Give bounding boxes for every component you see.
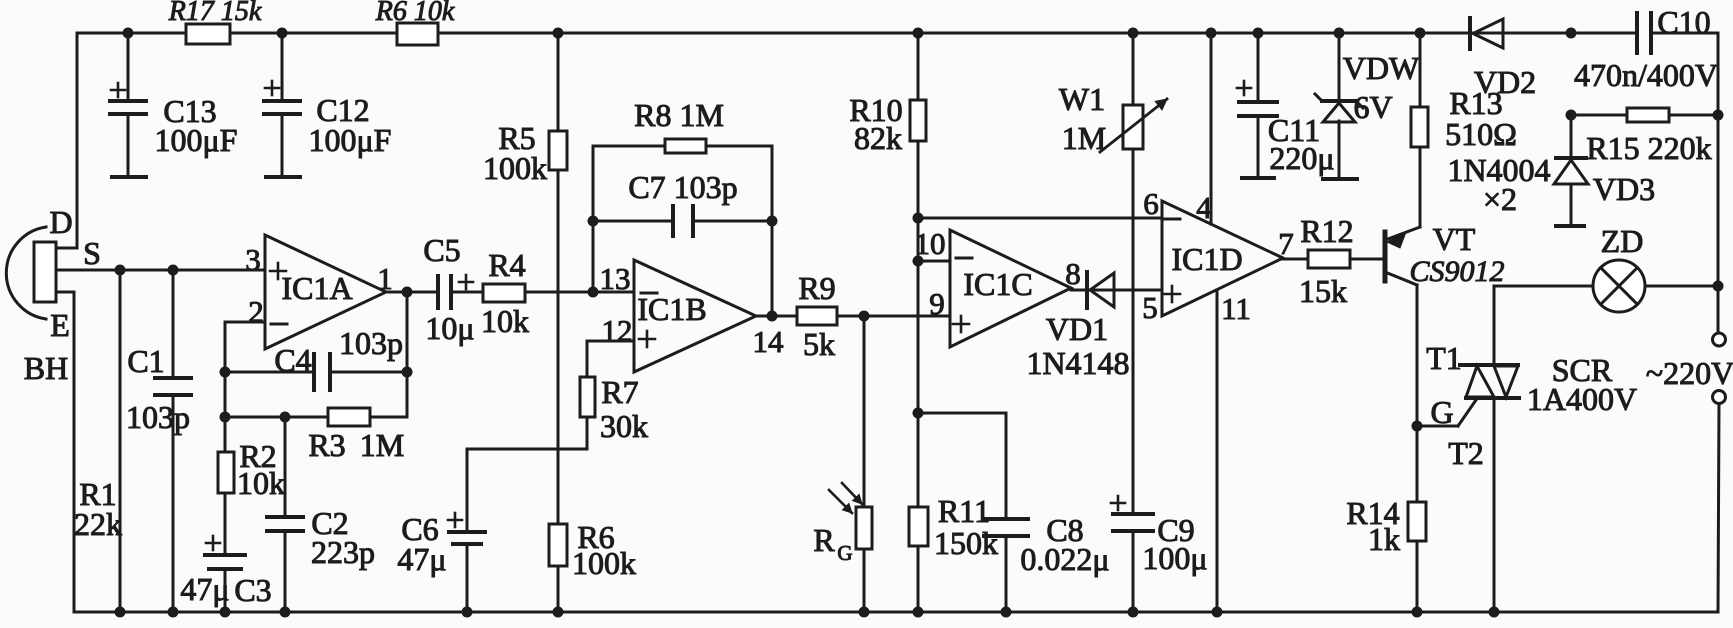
svg-text:~220V: ~220V <box>1646 355 1733 391</box>
svg-text:510Ω: 510Ω <box>1445 116 1517 152</box>
svg-text:ZD: ZD <box>1601 223 1644 259</box>
svg-text:1M: 1M <box>360 427 404 463</box>
svg-text:2: 2 <box>248 294 264 329</box>
svg-text:×2: ×2 <box>1483 181 1517 217</box>
svg-text:5: 5 <box>1142 290 1158 325</box>
svg-text:100μF: 100μF <box>155 122 238 158</box>
svg-text:10μ: 10μ <box>425 310 474 346</box>
svg-text:30k: 30k <box>600 408 648 444</box>
svg-text:R15 220k: R15 220k <box>1586 130 1711 166</box>
svg-text:10k: 10k <box>237 465 285 501</box>
svg-text:1N4148: 1N4148 <box>1026 345 1129 381</box>
svg-text:150k: 150k <box>934 525 998 561</box>
svg-text:D: D <box>49 204 72 240</box>
svg-text:10k: 10k <box>481 303 529 339</box>
svg-text:13: 13 <box>600 261 631 296</box>
svg-text:VD3: VD3 <box>1593 171 1655 207</box>
svg-text:VD2: VD2 <box>1474 64 1536 100</box>
svg-text:G: G <box>1430 394 1453 430</box>
svg-text:1M: 1M <box>1062 120 1106 156</box>
svg-text:15k: 15k <box>1299 273 1347 309</box>
svg-text:1k: 1k <box>1368 521 1400 557</box>
svg-text:VT: VT <box>1433 221 1476 257</box>
svg-text:100k: 100k <box>572 545 636 581</box>
svg-text:R12: R12 <box>1300 213 1353 249</box>
svg-text:103p: 103p <box>126 399 190 435</box>
svg-text:R7: R7 <box>601 374 638 410</box>
svg-text:IC1D: IC1D <box>1171 241 1242 277</box>
svg-text:T1: T1 <box>1426 340 1462 376</box>
svg-text:S: S <box>83 235 101 271</box>
svg-text:C7 103p: C7 103p <box>628 169 737 205</box>
svg-text:R3: R3 <box>308 427 345 463</box>
svg-text:9: 9 <box>929 286 945 321</box>
svg-text:W1: W1 <box>1059 81 1105 117</box>
svg-text:82k: 82k <box>854 120 902 156</box>
svg-text:3: 3 <box>245 242 261 277</box>
svg-text:47μ: 47μ <box>397 541 446 577</box>
svg-text:BH: BH <box>24 350 68 386</box>
svg-text:R6 10k: R6 10k <box>375 0 455 27</box>
svg-text:C5: C5 <box>423 232 460 268</box>
svg-text:223p: 223p <box>311 534 375 570</box>
svg-text:100k: 100k <box>483 150 547 186</box>
svg-text:R4: R4 <box>488 247 525 283</box>
svg-text:IC1B: IC1B <box>637 291 706 327</box>
svg-text:220μ: 220μ <box>1269 140 1334 176</box>
svg-text:100μ: 100μ <box>1142 540 1207 576</box>
svg-text:C10: C10 <box>1657 4 1710 40</box>
svg-text:6V: 6V <box>1353 89 1392 125</box>
svg-text:0.022μ: 0.022μ <box>1020 541 1109 577</box>
svg-text:470n/400V: 470n/400V <box>1574 57 1718 93</box>
svg-text:R11: R11 <box>938 493 990 529</box>
svg-text:103p: 103p <box>339 325 403 361</box>
svg-text:CS9012: CS9012 <box>1409 255 1504 288</box>
svg-text:R: R <box>813 522 835 558</box>
svg-text:VDW: VDW <box>1343 50 1420 86</box>
svg-text:11: 11 <box>1221 291 1251 326</box>
svg-text:8: 8 <box>1065 256 1081 291</box>
svg-text:12: 12 <box>602 313 633 348</box>
svg-text:C3: C3 <box>234 572 271 608</box>
svg-text:IC1C: IC1C <box>963 266 1032 302</box>
svg-text:C1: C1 <box>127 343 164 379</box>
svg-text:5k: 5k <box>803 326 835 362</box>
svg-text:7: 7 <box>1278 226 1294 261</box>
svg-text:47μ: 47μ <box>180 571 229 607</box>
svg-text:6: 6 <box>1143 186 1159 221</box>
svg-text:VD1: VD1 <box>1046 311 1108 347</box>
svg-text:1A400V: 1A400V <box>1527 381 1637 417</box>
svg-text:G: G <box>837 541 852 565</box>
svg-text:R9: R9 <box>798 270 835 306</box>
svg-text:IC1A: IC1A <box>281 270 352 306</box>
svg-text:4: 4 <box>1196 190 1212 225</box>
svg-text:14: 14 <box>753 324 785 359</box>
svg-text:E: E <box>50 307 70 343</box>
svg-text:R17 15k: R17 15k <box>168 0 262 27</box>
svg-text:10: 10 <box>915 226 946 261</box>
svg-text:R8 1M: R8 1M <box>634 97 724 133</box>
svg-text:T2: T2 <box>1448 435 1484 471</box>
svg-text:100μF: 100μF <box>309 122 392 158</box>
svg-text:C4: C4 <box>274 342 311 378</box>
svg-text:1: 1 <box>377 261 393 296</box>
svg-text:22k: 22k <box>74 506 122 542</box>
